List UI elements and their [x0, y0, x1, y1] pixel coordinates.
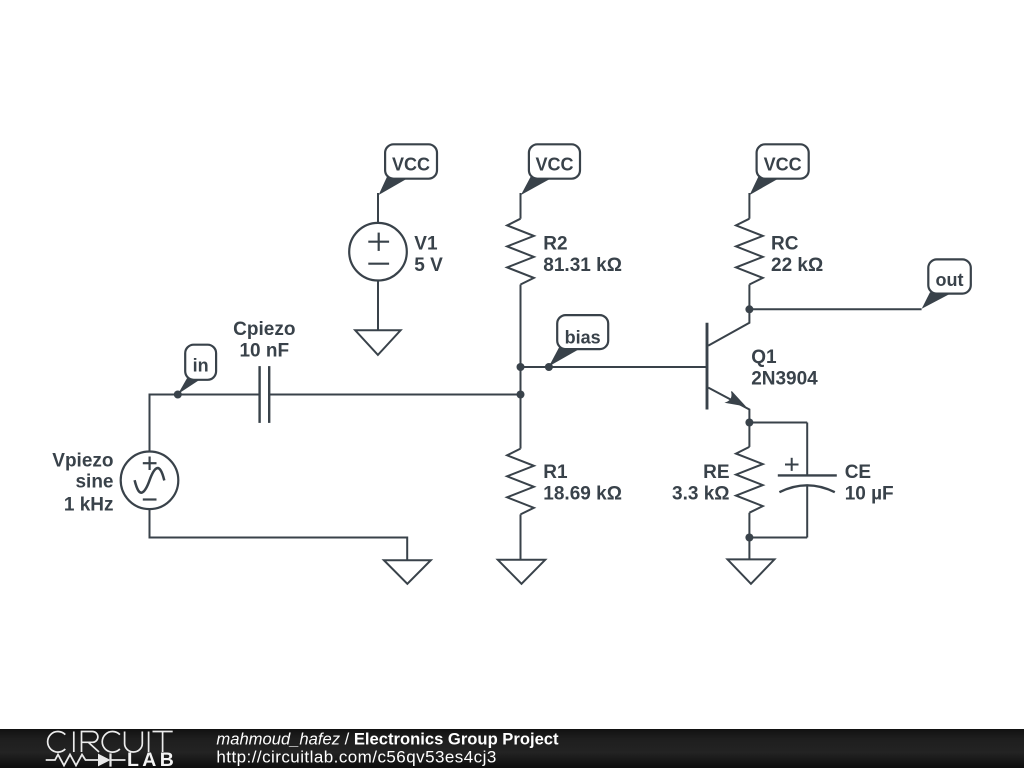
svg-text:mahmoud_hafez / Electronics Gr: mahmoud_hafez / Electronics Group Projec… — [216, 730, 559, 749]
svg-text:10 nF: 10 nF — [239, 341, 289, 362]
svg-text:R2: R2 — [543, 233, 567, 254]
svg-text:sine: sine — [75, 471, 113, 492]
svg-text:3.3 kΩ: 3.3 kΩ — [672, 483, 730, 504]
svg-text:VCC: VCC — [764, 155, 802, 175]
svg-text:22 kΩ: 22 kΩ — [771, 255, 823, 276]
svg-text:5 V: 5 V — [414, 255, 443, 276]
svg-text:CE: CE — [845, 462, 871, 483]
svg-text:V1: V1 — [414, 233, 438, 254]
svg-text:out: out — [936, 270, 964, 290]
svg-text:bias: bias — [565, 328, 601, 348]
svg-text:Q1: Q1 — [751, 347, 777, 368]
svg-text:http://circuitlab.com/c56qv53e: http://circuitlab.com/c56qv53es4cj3 — [216, 748, 496, 767]
svg-text:RC: RC — [771, 233, 799, 254]
svg-text:Cpiezo: Cpiezo — [233, 319, 295, 340]
svg-text:18.69 kΩ: 18.69 kΩ — [543, 483, 622, 504]
svg-text:VCC: VCC — [535, 155, 573, 175]
svg-text:Vpiezo: Vpiezo — [52, 451, 113, 472]
svg-text:81.31 kΩ: 81.31 kΩ — [543, 255, 622, 276]
svg-text:VCC: VCC — [392, 155, 430, 175]
svg-text:LAB: LAB — [127, 749, 177, 768]
svg-text:2N3904: 2N3904 — [751, 368, 818, 389]
svg-text:R1: R1 — [543, 462, 568, 483]
svg-text:in: in — [193, 355, 209, 375]
svg-text:10 µF: 10 µF — [845, 483, 894, 504]
svg-text:1 kHz: 1 kHz — [64, 495, 114, 516]
svg-text:RE: RE — [703, 462, 729, 483]
